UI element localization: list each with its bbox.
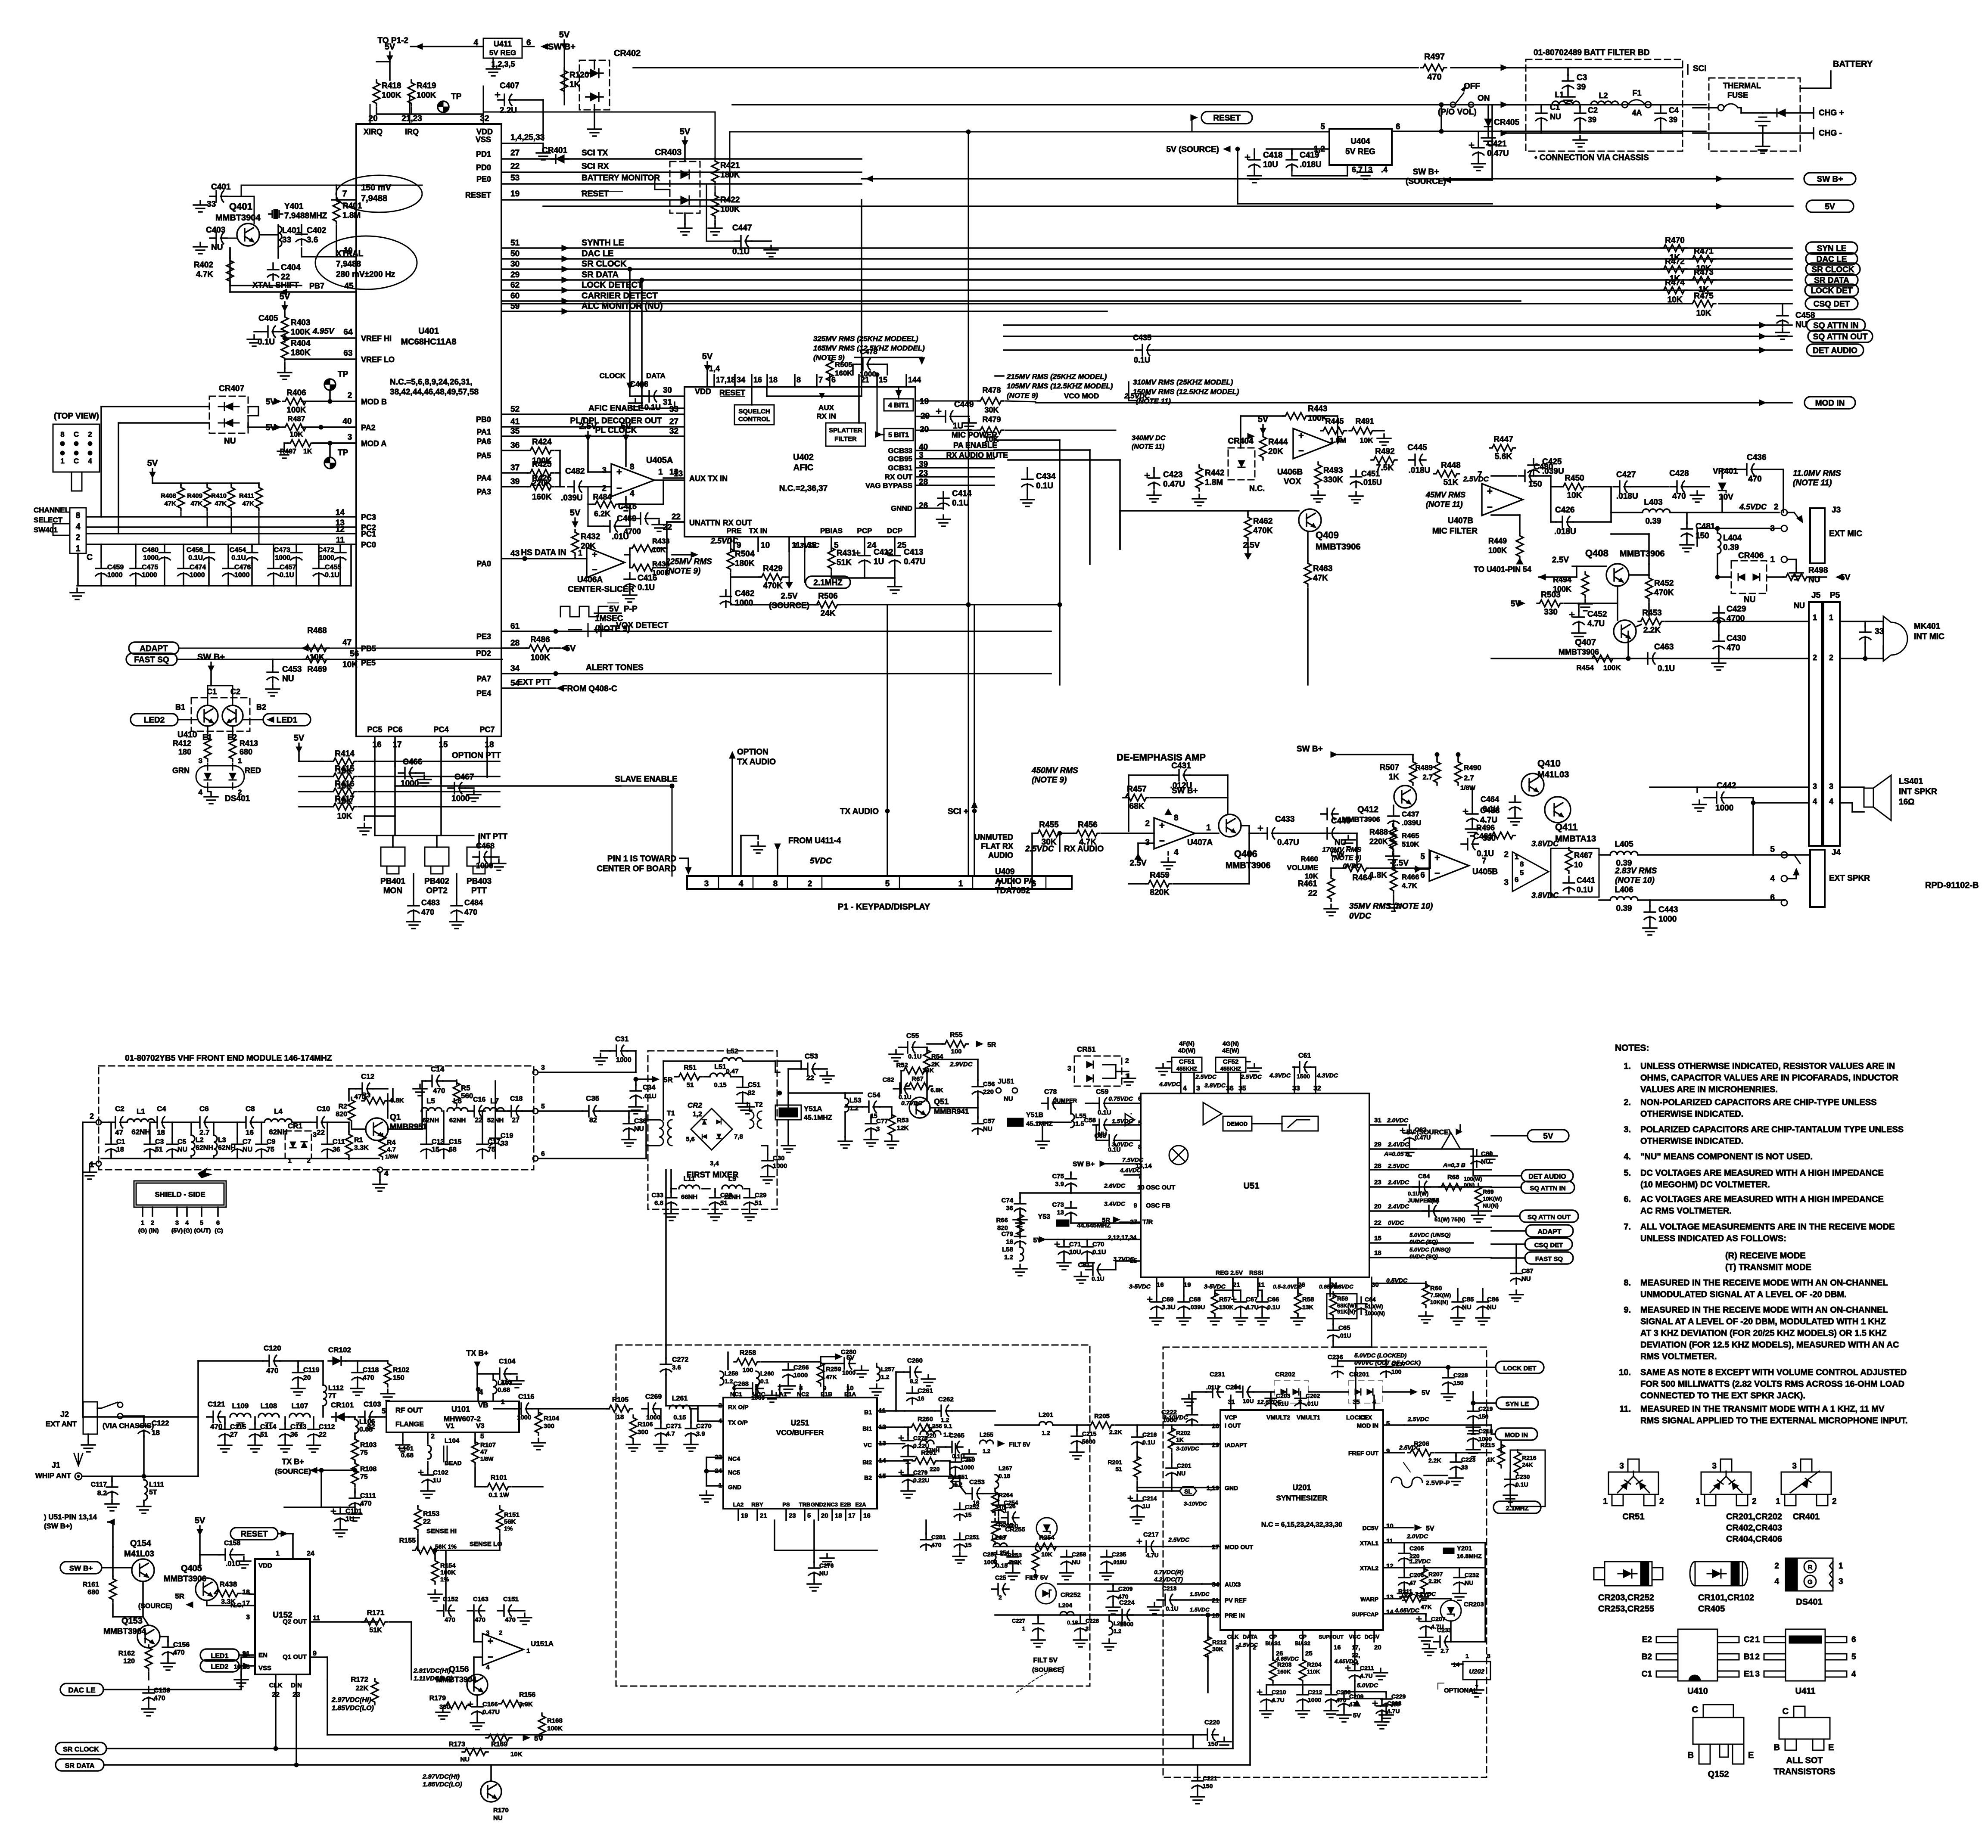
svg-text:1000: 1000 [143,554,159,562]
svg-text:C481: C481 [1696,522,1715,531]
wire [1214,1290,1216,1296]
svg-text:1: 1 [141,1219,144,1227]
wire [168,1121,193,1123]
wire [1611,512,1643,513]
ground [248,1441,262,1452]
svg-text:1K: 1K [1176,1436,1184,1443]
svg-text:C462: C462 [735,589,754,598]
capacitor C209 [1108,1585,1119,1602]
svg-text:R425: R425 [532,460,552,469]
capacitor C214 [1128,1494,1143,1512]
zener VR401 [1718,483,1726,492]
svg-text:.018U: .018U [1300,160,1322,169]
svg-text:C3: C3 [155,1138,164,1146]
wire [502,258,1792,260]
wire [208,544,210,546]
wire [1137,843,1139,860]
wire [729,132,731,200]
capacitor C445 [1409,454,1426,466]
wire [594,612,621,614]
package CR203 CR252 CR253 CR255 [1605,1562,1652,1586]
capacitor C201 [1166,1462,1177,1479]
ground [1324,904,1338,916]
svg-text:R408: R408 [161,492,176,500]
svg-text:OTHERWISE INDICATED.: OTHERWISE INDICATED. [1640,1137,1743,1146]
wire [1617,603,1618,620]
capacitor C266 [783,1363,794,1381]
node SQ ATTN IN pill bottom [1521,1181,1574,1193]
svg-text:4: 4 [486,1664,490,1671]
svg-text:U406B: U406B [1277,468,1303,477]
wire [261,1122,262,1139]
mixer circle U51 [1169,1146,1188,1165]
svg-text:(NOTE 9): (NOTE 9) [666,567,700,576]
svg-text:C208: C208 [1387,1700,1402,1707]
svg-text:10.: 10. [1619,1368,1631,1377]
capacitor C413 [886,549,900,566]
svg-text:C228: C228 [1086,1618,1099,1624]
svg-text:17,18: 17,18 [716,376,735,384]
svg-text:C253: C253 [969,1478,985,1486]
wire [1031,833,1033,889]
ground [1712,659,1726,670]
wire [594,110,595,125]
ground [1150,1314,1164,1325]
capacitor C236 [1332,1360,1343,1377]
svg-text:680: 680 [240,748,252,756]
svg-text:C36: C36 [634,1118,647,1125]
wire [364,815,395,817]
wire [329,390,331,401]
resistor R471 [1690,255,1716,262]
svg-text:PRE: PRE [727,527,742,535]
svg-text:R424: R424 [532,438,552,447]
svg-text:R401: R401 [342,202,362,211]
wire [351,1122,352,1125]
resistor R488 [1389,824,1396,850]
svg-text:A=0,3 B: A=0,3 B [1443,1162,1465,1168]
svg-text:C209: C209 [1118,1585,1133,1592]
svg-text:100: 100 [1391,1368,1402,1375]
wire [995,1424,1039,1426]
svg-text:C103: C103 [364,1400,381,1408]
svg-text:45: 45 [344,282,354,291]
capacitor C218b [1468,1427,1479,1444]
wire [731,758,733,876]
wire [358,791,500,792]
svg-text:1000: 1000 [1308,1696,1321,1703]
capacitor C25 [992,1584,1009,1595]
resistor R489 [1434,759,1440,785]
svg-text:1/8W: 1/8W [385,1153,398,1160]
svg-text:UNATTN RX OUT: UNATTN RX OUT [689,519,752,527]
svg-text:3: 3 [876,1125,880,1133]
wire [713,375,715,387]
svg-text:2.5VDC: 2.5VDC [1388,1162,1409,1169]
ground [510,1376,524,1388]
ground [1375,1718,1389,1729]
inductor L259 [720,1371,724,1385]
wire [190,1156,192,1158]
svg-text:PBIAS: PBIAS [820,527,843,535]
svg-text:6: 6 [1138,1095,1142,1103]
svg-text:5V: 5V [609,605,619,614]
resistor R408 [177,485,184,511]
svg-text:C69: C69 [1162,1296,1174,1303]
svg-text:17: 17 [392,740,401,749]
svg-text:+: + [488,1636,493,1646]
wire [1638,899,1783,901]
ground [1481,134,1495,145]
svg-text:L52: L52 [726,1048,738,1055]
wire [960,1486,966,1494]
svg-text:2.5V: 2.5V [579,422,597,431]
svg-text:MMBT3904: MMBT3904 [103,1627,146,1636]
svg-text:Q154: Q154 [130,1539,152,1548]
svg-text:MOD OUT: MOD OUT [1225,1544,1254,1550]
svg-text:VMULT1: VMULT1 [1297,1414,1320,1421]
svg-text:CF51: CF51 [1179,1058,1195,1065]
wire [555,486,560,488]
wire [1070,1188,1072,1193]
svg-text:−: − [488,1652,493,1662]
wire [744,1188,750,1190]
svg-text:470: 470 [266,1367,278,1375]
svg-text:L403: L403 [1644,498,1662,507]
wire [258,512,260,544]
svg-text:18: 18 [485,740,494,749]
svg-text:OPTION PTT: OPTION PTT [452,751,501,760]
svg-text:2: 2 [1829,653,1833,662]
ground [218,1441,232,1452]
wire [413,874,414,900]
resistor R468 [303,645,329,652]
svg-text:45.1MHZ: 45.1MHZ [1026,1120,1053,1127]
wire [1215,1289,1233,1291]
transistor Q405 [196,1578,218,1600]
capacitor C81 [1086,1264,1104,1275]
svg-text:C34: C34 [643,1084,655,1091]
svg-text:19: 19 [741,1512,748,1519]
svg-text:OSC OUT: OSC OUT [1146,1184,1175,1191]
wire [663,1060,722,1062]
IC U401 MC68HC11A8 [356,124,501,736]
svg-text:NU: NU [1072,1559,1080,1565]
svg-text:4.7U: 4.7U [1387,1708,1400,1714]
svg-text:0.1U: 0.1U [1134,356,1150,364]
svg-text:2: 2 [88,430,92,438]
wire [374,1679,376,1680]
wire [706,1457,723,1458]
capacitor C401 [210,191,227,202]
svg-text:C426: C426 [1555,506,1574,515]
wire [180,512,182,517]
svg-text:PA0: PA0 [476,559,491,568]
wire [831,1509,833,1520]
svg-text:SELECT: SELECT [34,516,63,524]
resistor R407 [288,440,314,447]
svg-text:2.0VDC: 2.0VDC [1387,1117,1409,1124]
ground [1208,1314,1222,1325]
wire [176,1207,178,1216]
resistor R416 [331,788,357,795]
wire [354,1488,356,1493]
svg-text:1: 1 [76,544,81,553]
wire [1108,1615,1110,1621]
svg-text:30: 30 [663,386,672,395]
ground [1387,900,1400,911]
wire [261,1154,262,1158]
wire [1005,401,1036,402]
resistor R449 [1516,533,1523,559]
svg-text:4.95V: 4.95V [312,327,335,336]
capacitor C228b [1075,1617,1086,1634]
capacitor C456 [203,546,215,563]
svg-text:DS401: DS401 [225,794,250,803]
svg-text:C16: C16 [473,1096,485,1103]
wire [995,375,1004,377]
ground [1130,1513,1144,1524]
wire [720,396,744,397]
wire [829,385,831,387]
wire [411,1622,412,1680]
svg-text:C4: C4 [1669,106,1679,115]
svg-text:B2: B2 [864,1474,872,1481]
diode CR202 [1281,1389,1287,1395]
svg-text:(SOURCE): (SOURCE) [275,1467,311,1475]
svg-text:5: 5 [1420,852,1425,861]
svg-text:AFIC: AFIC [793,463,814,472]
wire [1037,1121,1071,1123]
ground [193,201,207,212]
test point TP [438,92,462,112]
capacitor C215 [1071,1430,1083,1447]
wire [674,402,675,408]
microphone MK401 [1883,616,1907,661]
svg-text:220: 220 [926,1432,936,1439]
wire [753,876,754,889]
svg-text:C227: C227 [1012,1618,1025,1624]
ground [1080,1258,1094,1270]
wire [345,1360,388,1362]
svg-text:1000: 1000 [751,1394,765,1401]
resistor R168 [538,1713,545,1739]
wire j2 switch [118,1402,123,1407]
node ADAPT tag [129,642,179,654]
wire [1491,475,1516,477]
svg-text:0.5-3.0VDC: 0.5-3.0VDC [1273,1283,1303,1290]
svg-text:THERMAL: THERMAL [1723,81,1761,90]
svg-text:R404: R404 [291,339,311,348]
svg-text:GND: GND [728,1484,741,1491]
wire [1371,867,1394,869]
svg-text:C70: C70 [1092,1241,1104,1248]
svg-text:C476: C476 [234,564,251,571]
svg-text:VAG BYPASS: VAG BYPASS [865,481,912,490]
svg-text:C2: C2 [230,687,240,696]
svg-text:160K: 160K [835,369,852,377]
wire [280,1360,323,1362]
capacitor C268 [746,1383,763,1394]
wire [388,1128,422,1130]
svg-text:22: 22 [423,1518,431,1525]
wire [816,375,818,387]
svg-text:1000: 1000 [1658,915,1677,924]
svg-text:PS: PS [782,1501,790,1508]
wire [636,1078,652,1080]
wire [788,1092,845,1094]
wire [1063,1239,1065,1241]
svg-text:4: 4 [1770,874,1775,883]
ground [1349,492,1363,503]
wire [1787,878,1796,879]
inductor L257 [877,1367,880,1381]
resistor R414 [331,758,357,765]
svg-text:MOD IN: MOD IN [1356,1422,1378,1429]
wire [436,835,438,847]
ground [664,1209,678,1221]
wire [1137,1487,1202,1488]
svg-text:C: C [1692,1705,1698,1714]
svg-text:5,6: 5,6 [686,1136,695,1143]
wire [874,363,887,365]
svg-text:TX O/P: TX O/P [728,1419,748,1426]
wire [1383,1542,1404,1544]
svg-text:4.7K: 4.7K [1402,882,1418,890]
svg-text:130K: 130K [1219,1304,1233,1311]
wire [1193,1391,1206,1393]
svg-text:PV REF: PV REF [1225,1597,1247,1604]
wire [1171,1425,1173,1432]
svg-text:18: 18 [157,1128,165,1137]
svg-text:R103: R103 [360,1441,376,1449]
svg-text:C258: C258 [1072,1551,1086,1558]
wire [1232,1277,1234,1290]
capacitor C230 [1505,1473,1516,1490]
wire [283,443,285,447]
resistor R504 [727,546,734,572]
wire [730,546,731,551]
svg-text:R264: R264 [999,1491,1013,1498]
node SQ ATTN OUT tag [1808,330,1873,342]
wire [1291,149,1293,154]
wire [740,835,742,876]
wire [284,338,286,342]
svg-text:ADAPT: ADAPT [140,644,168,653]
svg-text:F1: F1 [1632,89,1641,97]
svg-text:R431: R431 [837,549,856,558]
svg-text:RPD-91102-B: RPD-91102-B [1925,881,1979,890]
svg-text:(P/O VOL): (P/O VOL) [1438,108,1477,117]
svg-text:C431: C431 [1171,761,1191,770]
wire [1329,1277,1331,1296]
svg-text:82: 82 [367,1422,375,1431]
svg-text:0.1U: 0.1U [1092,1249,1106,1256]
svg-text:4F(N): 4F(N) [1179,1040,1195,1047]
svg-text:NU(N): NU(N) [1483,1202,1499,1209]
svg-text:C2: C2 [115,1105,124,1113]
ground [678,224,692,235]
svg-text:+: + [1159,820,1165,831]
svg-text:R418: R418 [382,81,401,90]
svg-text:R460: R460 [1300,855,1318,863]
svg-text:OSC FB: OSC FB [1146,1202,1170,1209]
wire [794,375,796,387]
wire [972,876,974,889]
svg-text:3-10VDC: 3-10VDC [1176,1445,1199,1452]
inductor L403 [1643,509,1670,512]
svg-text:1000: 1000 [142,571,157,579]
capacitor C433 [1258,826,1278,839]
svg-text:300: 300 [638,1429,648,1436]
svg-text:NU: NU [243,1146,252,1153]
svg-text:TRB: TRB [799,1501,811,1508]
capacitor C54b C77 R53 [862,1101,880,1112]
svg-text:VDD: VDD [258,1562,272,1569]
svg-text:C25: C25 [995,1574,1006,1581]
wire [625,441,627,466]
capacitor C210 [1257,1688,1272,1705]
svg-text:5: 5 [1386,1420,1390,1427]
inductor L401 [278,226,282,247]
svg-text:MON: MON [383,886,402,895]
node 5V pill bottom [1528,1130,1569,1142]
wire [230,483,232,485]
svg-text:PIN 1 IS TOWARD: PIN 1 IS TOWARD [607,854,676,863]
wire [354,1433,356,1439]
wire [1717,576,1731,578]
svg-text:4G(N): 4G(N) [1223,1040,1239,1047]
svg-text:CONTROL: CONTROL [738,416,770,423]
wire [666,1405,698,1407]
capacitor C473 [291,546,302,563]
svg-text:47: 47 [342,638,352,647]
svg-text:0.1U(W): 0.1U(W) [1408,1190,1428,1197]
svg-text:180K: 180K [291,348,311,357]
wire [318,544,320,562]
wire [111,1476,113,1482]
capacitor C431 [1129,770,1228,771]
wire [358,776,500,777]
wire [1202,1546,1220,1547]
ground [83,1168,96,1179]
svg-text:30: 30 [510,260,520,269]
svg-text:300: 300 [544,1422,554,1430]
svg-text:(5V): (5V) [171,1227,183,1234]
svg-text:C228: C228 [1453,1372,1468,1379]
svg-text:CW: CW [1331,850,1344,859]
wire pin19 [915,401,978,402]
svg-text:RSSI: RSSI [1249,1269,1263,1276]
svg-text:560: 560 [461,1092,473,1100]
resistor R479 [978,427,1004,434]
svg-text:R506: R506 [818,592,837,601]
wire [907,1461,909,1469]
svg-text:23: 23 [1374,1179,1381,1186]
wire [242,1593,255,1594]
svg-text:FILT 5V: FILT 5V [1033,1657,1058,1664]
svg-text:30: 30 [1372,1281,1379,1289]
svg-text:ON: ON [1478,94,1490,103]
svg-text:8.2: 8.2 [97,1490,107,1497]
wire [101,1158,379,1159]
svg-text:1.2: 1.2 [881,1373,890,1380]
capacitor C227 [1033,1617,1044,1634]
wire [1666,621,1717,622]
wire [1415,868,1429,870]
capacitor C80 [1471,1150,1482,1167]
wire [339,563,341,586]
